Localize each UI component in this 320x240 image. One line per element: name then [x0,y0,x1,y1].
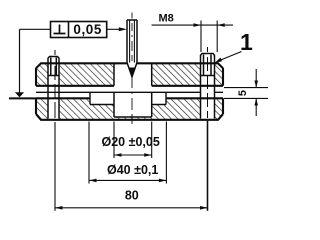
svg-text:M8: M8 [159,13,174,25]
phi40 arrows [89,179,97,183]
M8 extension lines [201,21,217,53]
punch body [127,20,137,77]
leader to frame [20,28,51,30]
right bolt hole in top plate (white) [201,64,215,87]
phi40 dimension line [89,179,166,181]
M8 arrows [194,23,202,27]
svg-text:1: 1 [240,29,253,55]
5 dimension extension lines [224,88,268,99]
phi20 hole (white) [114,97,152,117]
left stud centreline [54,50,56,118]
svg-text:80: 80 [125,189,139,203]
right bolt centreline [207,47,209,118]
punch tip filled [129,68,135,77]
datum line left [9,97,36,99]
phi20 pocket floor [114,116,152,118]
punch white underlay [127,20,137,77]
leader frame to punch with arrow [107,28,125,30]
svg-text:Ø40 ±0,1: Ø40 ±0,1 [107,163,158,177]
tolerance frame [51,22,107,38]
phi20 arrows [114,153,122,157]
80 arrows [55,206,63,210]
punch guide hole in top plate (white) [114,64,152,87]
M8 dimension line [152,24,234,26]
phi40 extension lines [89,122,166,184]
right bolt hole bottom plate (white) [201,97,215,119]
phi20 dimension line [114,154,152,156]
phi20 extension lines [114,122,152,159]
leader 1 to bolt [217,52,242,62]
right bolt [201,54,215,119]
svg-text:5: 5 [237,90,249,96]
svg-text:Ø20 ±0,05: Ø20 ±0,05 [102,135,160,149]
80 extension lines [54,122,56,211]
top plate outline [36,63,223,86]
top plate hatched body [36,63,223,88]
80 dimension line [55,207,208,209]
left stud hole bottom plate (white) [48,97,59,119]
bottom face thick line [36,114,223,120]
workpiece in slot [90,92,166,104]
5 dimension arrows [255,69,257,116]
bottom plate outline [36,98,223,114]
datum triangle [15,92,24,97]
bottom plate hatched body [36,97,223,120]
left stud [48,57,59,119]
slot centre line / workpiece top [36,91,223,93]
phi20 hole walls [114,64,152,117]
perpendicular symbol [54,25,66,34]
svg-text:0,05: 0,05 [73,22,102,37]
punch centreline [131,13,133,125]
workpiece recess (white) [90,97,166,104]
datum leader vertical [19,29,21,92]
left stud hole in top plate (white) [48,64,59,87]
